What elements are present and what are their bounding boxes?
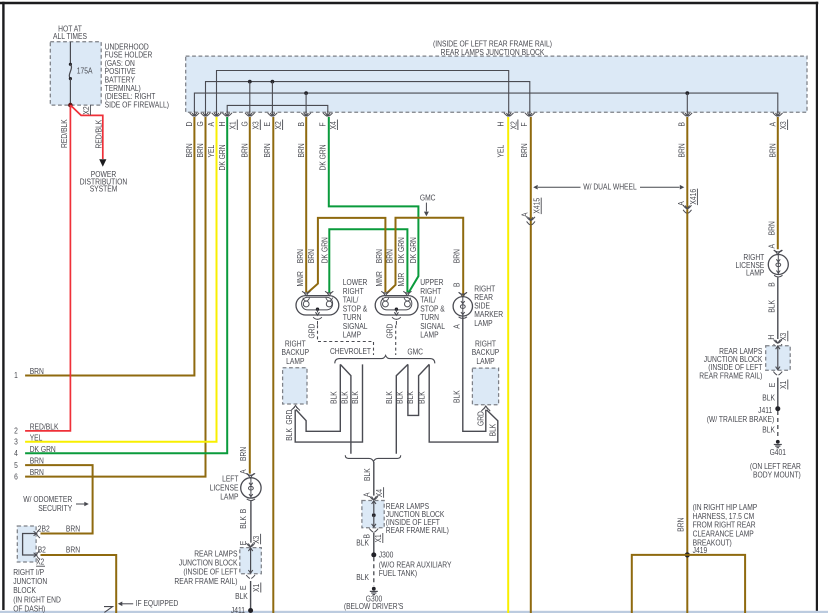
svg-text:RIGHT: RIGHT bbox=[475, 340, 496, 349]
svg-text:REAR LAMPS: REAR LAMPS bbox=[194, 550, 237, 559]
svg-text:(IN RIGHT HIP LAMP: (IN RIGHT HIP LAMP bbox=[693, 503, 758, 512]
wire BRN X3-E to bottom bbox=[272, 117, 274, 613]
svg-text:BRN: BRN bbox=[375, 249, 384, 263]
svg-text:(BELOW DRIVER'S: (BELOW DRIVER'S bbox=[344, 602, 404, 611]
svg-text:B2: B2 bbox=[38, 546, 47, 555]
svg-text:YEL: YEL bbox=[30, 433, 43, 442]
svg-text:X2: X2 bbox=[36, 558, 45, 567]
inline connector A X4 bbox=[372, 497, 377, 500]
wire DK GRN tail lamp link bbox=[329, 229, 407, 292]
svg-text:MNR: MNR bbox=[296, 271, 305, 286]
wire BRN B right to J419 bbox=[686, 117, 688, 613]
svg-text:TAIL/: TAIL/ bbox=[343, 296, 359, 305]
wire DK GRN X4-F to upper right tail lamp bbox=[329, 117, 419, 293]
svg-text:GRD: GRD bbox=[386, 323, 395, 338]
svg-text:G401: G401 bbox=[770, 448, 787, 457]
wire BLK W5-W6 loop (GMC) bbox=[408, 364, 429, 415]
svg-text:BLK: BLK bbox=[330, 391, 339, 404]
svg-text:REAR LAMPS JUNCTION BLOCK: REAR LAMPS JUNCTION BLOCK bbox=[441, 48, 545, 57]
svg-text:A: A bbox=[207, 121, 216, 126]
svg-text:GRD: GRD bbox=[308, 323, 317, 338]
svg-text:RED/BLK: RED/BLK bbox=[60, 119, 69, 148]
splice J411 (right) bbox=[775, 406, 780, 411]
svg-text:BLK: BLK bbox=[762, 393, 775, 402]
junction node at fuse output bbox=[68, 103, 73, 108]
svg-text:A: A bbox=[677, 201, 686, 206]
svg-text:YEL: YEL bbox=[207, 144, 216, 157]
svg-text:W/ ODOMETER: W/ ODOMETER bbox=[23, 495, 72, 504]
svg-text:BODY MOUNT): BODY MOUNT) bbox=[753, 470, 801, 479]
svg-text:A: A bbox=[239, 469, 248, 474]
svg-text:H: H bbox=[767, 335, 776, 340]
svg-text:J411: J411 bbox=[231, 606, 246, 613]
svg-text:LAMP: LAMP bbox=[474, 319, 492, 328]
svg-text:E: E bbox=[263, 122, 272, 127]
svg-text:BRN: BRN bbox=[30, 468, 44, 477]
wire BRN B2 to bottom (if equipped) bbox=[41, 555, 117, 613]
svg-text:X4: X4 bbox=[375, 489, 384, 498]
svg-text:MNR: MNR bbox=[375, 271, 384, 286]
svg-text:BRN: BRN bbox=[66, 546, 80, 555]
svg-text:G: G bbox=[196, 121, 205, 126]
svg-text:SIDE OF FIREWALL): SIDE OF FIREWALL) bbox=[105, 100, 170, 109]
brace over CHEVROLET/GMC ground wires bbox=[335, 355, 435, 363]
svg-text:BRN: BRN bbox=[768, 143, 777, 157]
svg-text:BLK: BLK bbox=[285, 427, 294, 440]
svg-text:BRN: BRN bbox=[263, 143, 272, 157]
svg-text:J419: J419 bbox=[693, 546, 708, 555]
svg-text:X416: X416 bbox=[689, 188, 698, 204]
svg-text:ALL TIMES: ALL TIMES bbox=[53, 32, 87, 41]
svg-text:RIGHT: RIGHT bbox=[285, 340, 306, 349]
svg-text:DK GRN: DK GRN bbox=[218, 144, 227, 170]
svg-text:X415: X415 bbox=[533, 197, 542, 213]
svg-text:BLK: BLK bbox=[489, 423, 498, 436]
svg-text:H: H bbox=[496, 121, 505, 126]
dashed wire BLK J411 to G401 bbox=[777, 411, 779, 439]
inline connector H X3 (right) bbox=[776, 340, 781, 343]
underhood fuse holder box bbox=[50, 42, 101, 105]
svg-text:BLK: BLK bbox=[235, 592, 248, 601]
dashed GRD wire from upper lamp to GMC bbox=[395, 325, 397, 355]
svg-text:A: A bbox=[453, 324, 462, 329]
under-brace gathering BLK wires bbox=[345, 455, 400, 461]
wire BLK W1 backup GRD (chevrolet) bbox=[296, 364, 340, 431]
svg-text:5: 5 bbox=[14, 461, 18, 470]
svg-text:GRD: GRD bbox=[477, 411, 486, 426]
wire BLK to J411 (right) bbox=[777, 378, 779, 407]
wire BRN X1-G to left license lamp bbox=[249, 117, 251, 474]
svg-text:LEFT: LEFT bbox=[222, 474, 238, 483]
svg-text:BLOCK: BLOCK bbox=[13, 586, 36, 595]
svg-text:LAMP: LAMP bbox=[343, 331, 361, 340]
svg-text:GMC: GMC bbox=[420, 193, 436, 202]
wire BLK marker lamp ground bbox=[463, 316, 486, 431]
svg-text:X3: X3 bbox=[252, 535, 261, 544]
svg-text:DK GRN: DK GRN bbox=[397, 237, 406, 263]
svg-text:E: E bbox=[239, 586, 248, 591]
svg-text:X1: X1 bbox=[229, 121, 238, 130]
wire BRN X2-F to bottom (dual wheel) bbox=[530, 117, 532, 613]
node on bus at B (right feed) bbox=[685, 91, 689, 95]
jumper wire inside I/P block bbox=[23, 534, 36, 556]
svg-text:2B2: 2B2 bbox=[38, 524, 50, 533]
lamp: RIGHT REAR SIDE MARKER LAMP bbox=[453, 297, 472, 316]
right I/P junction block connector box bbox=[17, 526, 36, 562]
node on bus at X3-E bbox=[271, 80, 275, 84]
svg-text:B: B bbox=[297, 122, 306, 127]
wire BLK W4 to under-brace (GMC) bbox=[396, 364, 408, 453]
svg-text:(INSIDE OF LEFT: (INSIDE OF LEFT bbox=[183, 568, 237, 577]
svg-text:BLK: BLK bbox=[768, 299, 777, 312]
svg-text:BRN: BRN bbox=[196, 143, 205, 157]
svg-text:REAR FRAME RAIL): REAR FRAME RAIL) bbox=[174, 577, 237, 586]
left connector wire 5 BRN to 2B2 bbox=[25, 465, 93, 533]
svg-text:A: A bbox=[362, 492, 371, 497]
svg-text:B: B bbox=[678, 122, 687, 127]
svg-text:X2: X2 bbox=[509, 121, 518, 130]
wire BRN A right to right license lamp bbox=[777, 117, 779, 249]
lamp: LOWER RIGHT TAIL/STOP & TURN SIGNAL LAMP bbox=[296, 296, 339, 315]
wire BLK W2 to under-brace (chevrolet) bbox=[340, 364, 351, 453]
svg-text:J300: J300 bbox=[379, 551, 394, 560]
connector exits at junction block bottom bbox=[193, 111, 195, 116]
svg-text:BRN: BRN bbox=[30, 367, 44, 376]
svg-text:LAMP: LAMP bbox=[476, 357, 494, 366]
svg-text:X1: X1 bbox=[779, 380, 788, 389]
svg-text:BLK: BLK bbox=[356, 573, 369, 582]
svg-text:LICENSE: LICENSE bbox=[210, 483, 239, 492]
wire YEL pin A to left connector 3 bbox=[25, 117, 216, 442]
node on bus at B (lamp feed) bbox=[304, 91, 308, 95]
svg-text:REAR FRAME RAIL): REAR FRAME RAIL) bbox=[386, 526, 449, 535]
svg-text:BLK: BLK bbox=[363, 468, 372, 481]
svg-text:FROM RIGHT REAR: FROM RIGHT REAR bbox=[693, 521, 756, 530]
svg-text:REAR FRAME RAIL): REAR FRAME RAIL) bbox=[699, 371, 762, 380]
svg-text:CHEVROLET: CHEVROLET bbox=[330, 347, 371, 356]
wire BRN tail lamp link MNR bbox=[307, 218, 386, 294]
svg-text:LAMP: LAMP bbox=[286, 357, 304, 366]
svg-text:A: A bbox=[768, 243, 777, 248]
svg-text:G: G bbox=[241, 121, 250, 126]
wire BRN B to lower right tail lamp bbox=[305, 117, 307, 292]
svg-text:SIGNAL: SIGNAL bbox=[420, 322, 445, 331]
svg-text:BLK: BLK bbox=[762, 426, 775, 435]
svg-text:BACKUP: BACKUP bbox=[282, 348, 310, 357]
svg-text:GMC: GMC bbox=[407, 347, 423, 356]
svg-text:SYSTEM: SYSTEM bbox=[90, 185, 118, 194]
svg-text:BRN: BRN bbox=[239, 447, 248, 461]
svg-text:B: B bbox=[453, 283, 462, 288]
svg-text:LAMP: LAMP bbox=[746, 269, 764, 278]
svg-text:B: B bbox=[239, 509, 248, 514]
connector pin B2 bbox=[34, 553, 37, 558]
svg-text:OF DASH): OF DASH) bbox=[13, 604, 45, 613]
svg-text:E: E bbox=[239, 541, 248, 546]
bus wire pin A to pin H (top) bbox=[217, 71, 509, 113]
junction block dashed box bbox=[186, 56, 807, 112]
svg-text:BRN: BRN bbox=[241, 143, 250, 157]
svg-text:LAMP: LAMP bbox=[220, 493, 238, 502]
svg-text:X4: X4 bbox=[329, 121, 338, 130]
svg-text:X2: X2 bbox=[82, 106, 91, 115]
svg-text:BRN: BRN bbox=[307, 249, 316, 263]
dashed wire BLK J300 to G300 bbox=[373, 557, 375, 585]
inline connector A X416 bbox=[685, 206, 690, 209]
wire drop X1-G bbox=[249, 82, 251, 112]
bus wire pin D to pin A (right) bbox=[194, 93, 777, 112]
svg-text:IF EQUIPPED: IF EQUIPPED bbox=[136, 599, 179, 608]
svg-text:BLK: BLK bbox=[385, 391, 394, 404]
wire BRN tail lamp to side marker lamp bbox=[387, 218, 464, 296]
svg-text:175A: 175A bbox=[77, 66, 93, 75]
splice J300 bbox=[371, 552, 376, 557]
inline connector A X415 bbox=[529, 217, 534, 220]
svg-text:BLK: BLK bbox=[356, 538, 369, 547]
svg-text:LOWER: LOWER bbox=[343, 278, 368, 287]
svg-text:3: 3 bbox=[14, 438, 18, 447]
svg-text:TURN: TURN bbox=[420, 313, 439, 322]
wire BLK left license to X3 connector bbox=[250, 501, 252, 543]
svg-text:A: A bbox=[768, 121, 777, 126]
svg-text:BRN: BRN bbox=[297, 143, 306, 157]
svg-text:X3: X3 bbox=[779, 332, 788, 341]
svg-text:4: 4 bbox=[14, 449, 18, 458]
dashed GRD wire from lower lamp to CHEVROLET bbox=[318, 325, 374, 355]
svg-text:TAIL/: TAIL/ bbox=[420, 296, 436, 305]
svg-text:BRN: BRN bbox=[768, 221, 777, 235]
connector pin 2B2 bbox=[34, 531, 37, 536]
svg-text:RIGHT: RIGHT bbox=[343, 287, 364, 296]
svg-text:BLK: BLK bbox=[239, 515, 248, 528]
lamp: UPPER RIGHT TAIL/STOP & TURN SIGNAL LAMP bbox=[375, 296, 418, 315]
svg-text:RIGHT I/P: RIGHT I/P bbox=[13, 568, 44, 577]
svg-text:RED/BLK: RED/BLK bbox=[30, 423, 59, 432]
svg-text:DK GRN: DK GRN bbox=[409, 237, 418, 263]
svg-text:6: 6 bbox=[14, 472, 18, 481]
svg-text:D: D bbox=[185, 121, 194, 126]
wire BRN pin G to left connector 6 bbox=[25, 117, 205, 477]
splice J419 bbox=[685, 552, 690, 557]
svg-text:F: F bbox=[520, 122, 529, 126]
svg-text:BLK: BLK bbox=[453, 390, 462, 403]
wire BRN pin D to left connector 1 bbox=[25, 117, 194, 376]
junction block box (left license) bbox=[240, 548, 261, 574]
svg-text:BLK: BLK bbox=[406, 391, 415, 404]
wire drop B right bbox=[686, 93, 688, 112]
off-page continuation mark bbox=[104, 607, 113, 613]
svg-text:DK GRN: DK GRN bbox=[30, 445, 56, 454]
wire BLK right license down to X3 bbox=[777, 277, 779, 339]
svg-text:X1: X1 bbox=[374, 534, 383, 543]
svg-text:F: F bbox=[319, 122, 328, 126]
svg-text:STOP &: STOP & bbox=[420, 304, 445, 313]
svg-text:H: H bbox=[218, 121, 227, 126]
svg-text:BRN: BRN bbox=[296, 249, 305, 263]
svg-text:LAMP: LAMP bbox=[420, 331, 438, 340]
svg-text:X2: X2 bbox=[274, 121, 283, 130]
svg-text:BRN: BRN bbox=[520, 143, 529, 157]
svg-text:BRN: BRN bbox=[30, 457, 44, 466]
svg-text:STOP &: STOP & bbox=[343, 304, 368, 313]
wire DK GRN pin H to left connector 4 bbox=[25, 117, 227, 453]
svg-text:DK GRN: DK GRN bbox=[320, 237, 329, 263]
svg-text:SECURITY: SECURITY bbox=[38, 504, 73, 513]
svg-text:E: E bbox=[768, 383, 777, 388]
svg-text:X1: X1 bbox=[252, 583, 261, 592]
splice J411 (left) bbox=[248, 608, 253, 613]
svg-text:B: B bbox=[768, 282, 777, 287]
wire BLK W3 backup BLK (chevrolet) bbox=[295, 364, 362, 442]
junction block box (X4/X1, middle) bbox=[362, 501, 384, 528]
svg-text:CLEARANCE LAMP: CLEARANCE LAMP bbox=[693, 529, 754, 538]
wire BLK to J300 bbox=[373, 533, 375, 553]
svg-text:JUNCTION BLOCK: JUNCTION BLOCK bbox=[179, 559, 238, 568]
wire drop X3-E bbox=[271, 82, 273, 112]
svg-text:(W/ TRAILER BRAKE): (W/ TRAILER BRAKE) bbox=[707, 415, 775, 424]
svg-text:FUEL TANK): FUEL TANK) bbox=[379, 569, 418, 578]
junction block box (right) bbox=[766, 346, 791, 371]
wire RED/BLK to power distribution bbox=[70, 105, 102, 159]
wire YEL X2-H to bottom bbox=[507, 117, 509, 613]
bus wire pin G to pin F bbox=[206, 82, 530, 112]
svg-text:BACKUP: BACKUP bbox=[472, 348, 500, 357]
ground G401 bbox=[776, 440, 780, 444]
inline connector E X3 (left) bbox=[248, 544, 253, 547]
wire BLK to J411 splice (left) bbox=[250, 581, 252, 609]
svg-text:BRN: BRN bbox=[676, 517, 685, 531]
svg-text:2: 2 bbox=[14, 427, 18, 436]
svg-text:BRN: BRN bbox=[386, 249, 395, 263]
svg-text:BLK: BLK bbox=[418, 391, 427, 404]
svg-text:JUNCTION: JUNCTION bbox=[13, 577, 47, 586]
svg-text:YEL: YEL bbox=[496, 144, 505, 157]
bus wire pin H to pin F (green circuit) bbox=[227, 105, 328, 112]
svg-text:RED/BLK: RED/BLK bbox=[94, 119, 103, 148]
wire RED/BLK fuse to left connector 2 bbox=[25, 105, 70, 431]
node on bus at X1-G bbox=[248, 80, 252, 84]
svg-text:X3: X3 bbox=[252, 121, 261, 130]
wire BRN J419 branches bbox=[632, 555, 745, 613]
wire BLK from under-brace to X4 junction block bbox=[373, 462, 375, 496]
svg-text:W/ DUAL WHEEL: W/ DUAL WHEEL bbox=[583, 182, 637, 191]
svg-text:BLK: BLK bbox=[340, 391, 349, 404]
svg-text:BLK: BLK bbox=[395, 391, 404, 404]
ground G300 bbox=[372, 587, 376, 591]
svg-text:BLK: BLK bbox=[351, 391, 360, 404]
svg-text:(IN RIGHT END: (IN RIGHT END bbox=[13, 595, 61, 604]
svg-text:TURN: TURN bbox=[343, 313, 362, 322]
wire BLK W7 right backup BLK (GMC) bbox=[429, 364, 498, 442]
svg-text:UPPER: UPPER bbox=[420, 278, 443, 287]
svg-text:BRN: BRN bbox=[185, 143, 194, 157]
svg-text:BRN: BRN bbox=[678, 143, 687, 157]
svg-text:RIGHT: RIGHT bbox=[420, 287, 441, 296]
svg-text:BRN: BRN bbox=[453, 249, 462, 263]
svg-text:BRN: BRN bbox=[66, 524, 80, 533]
svg-text:MJR: MJR bbox=[397, 273, 406, 287]
svg-text:A: A bbox=[520, 212, 529, 217]
svg-text:SIGNAL: SIGNAL bbox=[343, 322, 368, 331]
bottom page-break strip bbox=[0, 611, 828, 613]
page border bbox=[0, 2, 818, 5]
svg-text:X3: X3 bbox=[779, 121, 788, 130]
svg-text:1: 1 bbox=[14, 371, 18, 380]
wire drop B bbox=[305, 93, 307, 112]
svg-text:GRD: GRD bbox=[285, 410, 294, 425]
svg-text:DK GRN: DK GRN bbox=[319, 144, 328, 170]
fuse F1 175A bbox=[69, 42, 71, 65]
